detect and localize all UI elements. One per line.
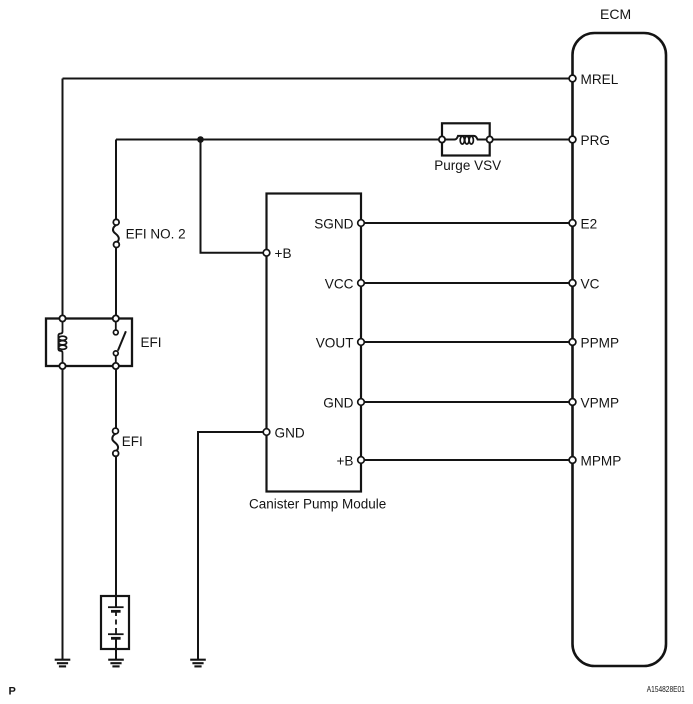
wire fuse to relay: [115, 245, 117, 319]
pin SGND (canister right): [314, 217, 364, 232]
wire EFI fuse to battery: [115, 453, 117, 607]
svg-text:P: P: [9, 686, 16, 698]
wire GND from canister module: [198, 432, 267, 660]
pin VCC (canister right): [325, 277, 365, 292]
svg-text:E2: E2: [581, 217, 598, 232]
ground battery: [108, 660, 124, 667]
wire left vertical upper: [62, 79, 64, 319]
ground left: [55, 660, 71, 667]
junction dot on PRG wire: [197, 136, 204, 143]
wire MREL horizontal: [63, 78, 573, 80]
wire PRG horizontal right segment: [487, 139, 573, 141]
svg-text:EFI: EFI: [141, 335, 162, 350]
wire EFI NO.2 vertical upper: [115, 140, 117, 223]
svg-text:VOUT: VOUT: [316, 336, 354, 351]
fuse EFI: [112, 428, 143, 456]
svg-text:EFI NO. 2: EFI NO. 2: [126, 226, 186, 241]
svg-text:EFI: EFI: [122, 434, 143, 449]
pin +B (canister right): [336, 454, 364, 469]
wire VCC to VC: [361, 282, 573, 284]
svg-text:MPMP: MPMP: [581, 454, 622, 469]
pin E2 (ECM): [569, 217, 597, 232]
wire relay to EFI fuse: [115, 366, 117, 431]
wire SGND to E2: [361, 222, 573, 224]
relay pins: [59, 315, 65, 321]
pin PPMP (ECM): [569, 336, 619, 351]
svg-text:A154828E01: A154828E01: [647, 684, 685, 694]
pin VC (ECM): [569, 277, 599, 292]
relay coil: [58, 322, 62, 364]
pin +B (canister left): [263, 246, 291, 261]
wire PRG horizontal left segment: [116, 139, 445, 141]
wire +B feed from PRG junction: [201, 140, 267, 253]
svg-text:ECM: ECM: [600, 6, 631, 22]
Canister Pump Module U2: [249, 194, 386, 512]
ECM U1: [573, 6, 667, 666]
relay EFI K1: [46, 315, 162, 369]
pin MREL (ECM): [569, 72, 619, 87]
svg-text:+B: +B: [336, 454, 353, 469]
svg-text:PPMP: PPMP: [581, 336, 620, 351]
svg-text:SGND: SGND: [314, 217, 353, 232]
svg-text:Canister Pump Module: Canister Pump Module: [249, 497, 386, 512]
svg-text:GND: GND: [323, 396, 353, 411]
wire left vertical lower: [62, 366, 64, 660]
Purge VSV solenoid valve: [434, 123, 501, 173]
pin GND (canister right): [323, 396, 364, 411]
fuse EFI NO. 2: [113, 219, 186, 247]
pin GND (canister left): [263, 426, 305, 441]
wire +B to MPMP: [361, 459, 573, 461]
battery BAT1: [101, 596, 129, 649]
wire GND to VPMP: [361, 401, 573, 403]
relay switch: [115, 321, 117, 330]
svg-text:+B: +B: [275, 246, 292, 261]
pin PRG (ECM): [569, 133, 610, 148]
pin VPMP (ECM): [569, 396, 619, 411]
svg-text:MREL: MREL: [581, 72, 619, 87]
svg-text:GND: GND: [275, 426, 305, 441]
ground canister: [190, 660, 206, 667]
svg-text:VC: VC: [581, 277, 600, 292]
pin MPMP (ECM): [569, 454, 621, 469]
svg-text:PRG: PRG: [581, 133, 610, 148]
wire battery to ground: [115, 639, 117, 660]
svg-text:VPMP: VPMP: [581, 396, 620, 411]
svg-text:Purge VSV: Purge VSV: [434, 158, 501, 173]
svg-text:VCC: VCC: [325, 277, 354, 292]
pin VOUT (canister right): [316, 336, 365, 351]
wire VOUT to PPMP: [361, 341, 573, 343]
